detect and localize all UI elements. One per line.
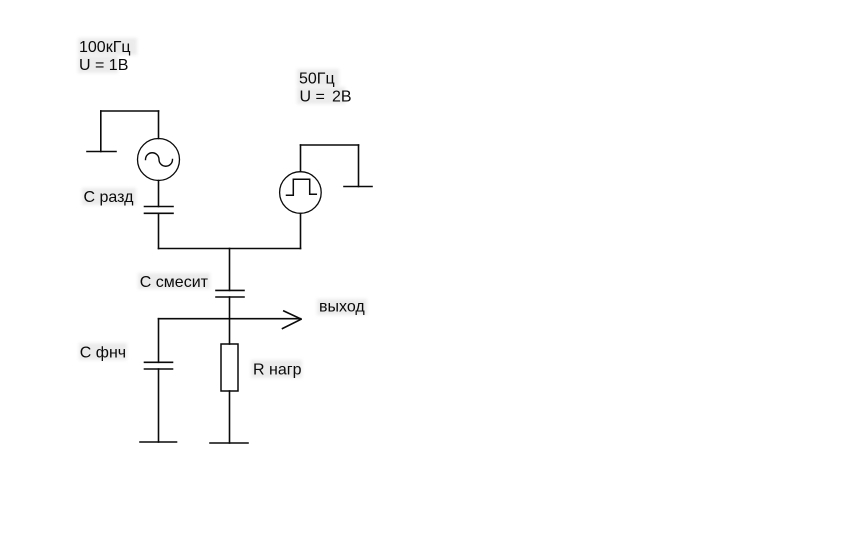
svg-text:R нагр: R нагр bbox=[253, 361, 302, 378]
svg-text:50Гц: 50Гц bbox=[299, 70, 335, 87]
svg-text:U = 1В: U = 1В bbox=[79, 57, 128, 74]
svg-text:2В: 2В bbox=[332, 89, 352, 106]
svg-text:С смесит: С смесит bbox=[140, 274, 209, 291]
svg-text:100кГц: 100кГц bbox=[79, 39, 131, 56]
svg-text:выход: выход bbox=[319, 298, 365, 315]
svg-text:U =: U = bbox=[300, 89, 325, 106]
svg-text:С разд: С разд bbox=[84, 189, 135, 206]
svg-text:С фнч: С фнч bbox=[80, 344, 126, 361]
